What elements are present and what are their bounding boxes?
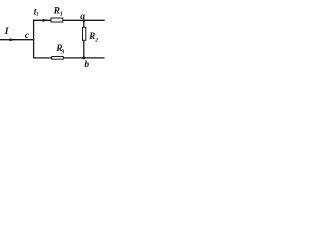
wire: bottom wire from R3 to right terminal	[63, 57, 105, 59]
svg-text:1: 1	[60, 12, 63, 18]
wire: from node a down to R2	[83, 20, 85, 27]
resistor R2 (vertical box)	[83, 27, 86, 40]
current arrow I1 on top wire	[43, 19, 49, 22]
svg-text:3: 3	[60, 50, 64, 56]
svg-text:R: R	[53, 6, 60, 16]
svg-text:2: 2	[94, 38, 98, 44]
svg-text:b: b	[84, 60, 89, 70]
svg-text:1: 1	[36, 12, 39, 18]
wire: vertical branch wire at node c	[33, 20, 35, 59]
resistor R1 (top box)	[51, 18, 63, 22]
wire: left input wire to node c	[0, 39, 34, 41]
wire: from R2 down to node b	[83, 40, 85, 58]
wire: bottom wire from c-corner to R3	[33, 57, 52, 59]
wire: top wire from R1 to right terminal	[63, 19, 105, 21]
node a junction dot	[82, 19, 85, 22]
current arrow I on left wire	[10, 38, 16, 41]
svg-text:I: I	[4, 27, 9, 37]
node b junction dot	[82, 56, 85, 59]
resistor R3 (bottom box)	[52, 57, 63, 60]
wire: top wire from c-corner to R1	[33, 19, 51, 21]
